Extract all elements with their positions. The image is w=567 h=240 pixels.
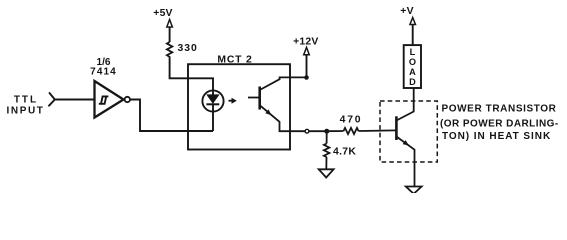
phototransistor emitter arrow [265, 109, 271, 115]
wire 330 to LED anode [170, 58, 213, 91]
svg-text:TTL: TTL [14, 95, 38, 106]
svg-text:POWER TRANSISTOR: POWER TRANSISTOR [442, 104, 557, 115]
wire inverter output to LED cathode [130, 100, 213, 132]
collector lead [396, 88, 413, 121]
svg-text:TON) IN HEAT SINK: TON) IN HEAT SINK [442, 131, 551, 142]
svg-text:330: 330 [178, 43, 198, 54]
ground (below 4.7K) [319, 169, 334, 177]
power +V [400, 6, 415, 45]
svg-text:4.7K: 4.7K [333, 147, 356, 158]
optocoupler U2 MCT 2 package box [188, 64, 290, 149]
load box [404, 45, 421, 88]
svg-text:+V: +V [400, 6, 413, 17]
svg-text:L: L [410, 47, 416, 57]
power +12V [293, 36, 318, 77]
power +5V [153, 8, 172, 42]
input terminal (TTL INPUT) [49, 93, 55, 106]
transistor emitter arrow [403, 140, 409, 146]
junction node emitter / 470 / 4.7K [324, 129, 329, 134]
base stub [248, 97, 260, 99]
label POWER TRANSISTOR (OR POWER DARLINGTON) IN HEAT SINK [440, 104, 559, 142]
svg-text:7414: 7414 [90, 67, 117, 78]
collector lead [260, 77, 307, 90]
inverter output bubble [125, 97, 130, 102]
LED (optocoupler emitter diode) [202, 90, 223, 131]
svg-text:470: 470 [340, 115, 363, 126]
label 1/6 7414 [90, 57, 117, 78]
light arrow (LED to phototransistor) [229, 98, 237, 104]
wire 470 to transistor base [359, 129, 397, 132]
svg-text:D: D [409, 77, 416, 87]
svg-text:A: A [409, 67, 416, 77]
phototransistor (optocoupler output) [248, 77, 327, 131]
svg-text:+5V: +5V [153, 8, 172, 19]
wire +12V to collector [306, 55, 308, 78]
junction dot collector / +12V [304, 75, 309, 80]
terminal dot emitter pin [305, 129, 309, 133]
svg-text:+12V: +12V [293, 36, 318, 47]
emitter lead [396, 137, 414, 187]
svg-text:O: O [409, 57, 416, 67]
wire emitter node to 470 [327, 130, 344, 132]
resistor 330 [167, 42, 172, 58]
inverter U1 1/6 7414 schmitt trigger [95, 81, 131, 118]
emitter lead [260, 105, 327, 131]
svg-text:INPUT: INPUT [7, 106, 45, 117]
base bar [395, 116, 398, 140]
transistor Q1 power transistor [396, 88, 414, 187]
svg-text:(OR POWER DARLING-: (OR POWER DARLING- [440, 118, 559, 129]
ground (transistor emitter) [406, 187, 422, 194]
wire +V to load [412, 25, 414, 46]
resistor 4.7K [324, 131, 330, 169]
resistor 470 [344, 128, 359, 134]
base bar [258, 87, 261, 110]
heat sink dashed box [380, 101, 437, 162]
wire input to inverter [55, 99, 95, 101]
label TTL INPUT [7, 95, 45, 117]
hysteresis symbol [99, 96, 109, 103]
